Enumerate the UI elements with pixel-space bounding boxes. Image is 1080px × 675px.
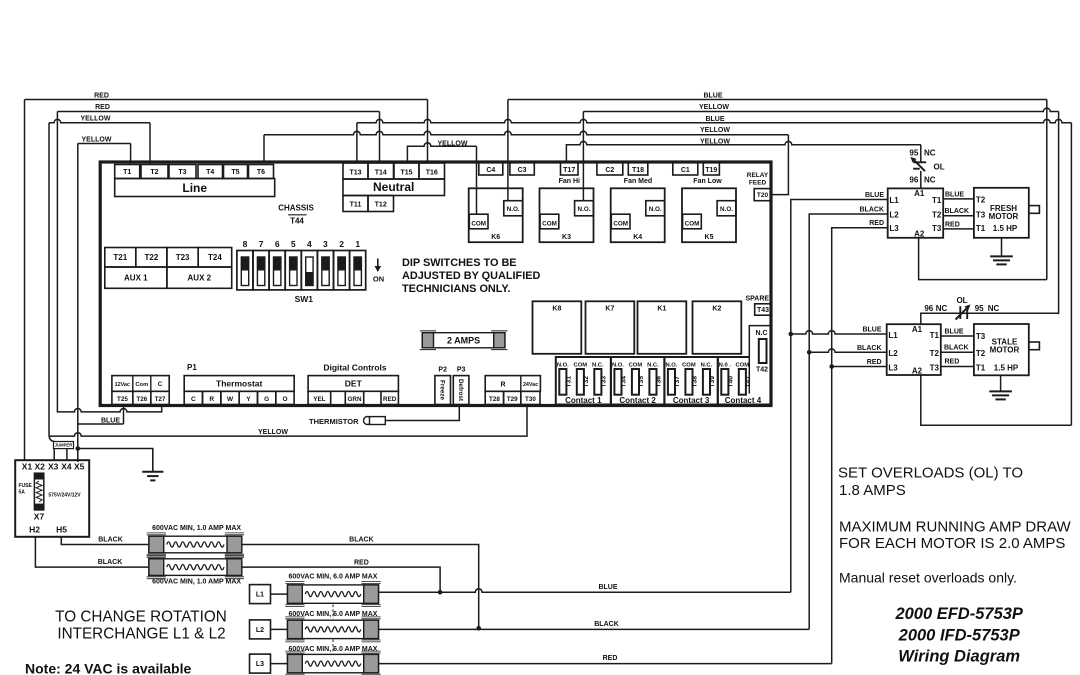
svg-text:YELLOW: YELLOW xyxy=(699,104,729,111)
thermistor symbol xyxy=(364,417,386,425)
svg-text:Manual reset overloads only.: Manual reset overloads only. xyxy=(839,570,1017,586)
svg-text:K3: K3 xyxy=(562,234,571,241)
svg-text:P1: P1 xyxy=(187,363,197,372)
terminal T11 xyxy=(343,196,368,212)
svg-text:YELLOW: YELLOW xyxy=(700,127,730,134)
svg-text:ADJUSTED BY QUALIFIED: ADJUSTED BY QUALIFIED xyxy=(402,270,541,282)
svg-text:L1: L1 xyxy=(256,592,264,599)
contactor stale motor xyxy=(887,324,941,375)
svg-text:FEED: FEED xyxy=(749,180,767,187)
wire YELLOW (T17 to fresh OL 95) horizontal xyxy=(566,141,921,162)
svg-text:2000 IFD-5753P: 2000 IFD-5753P xyxy=(898,626,1021,644)
svg-text:T33: T33 xyxy=(601,376,608,388)
terminal T2 xyxy=(141,165,168,179)
svg-text:T3: T3 xyxy=(932,224,942,233)
terminal T22 xyxy=(136,248,167,268)
wire BLACK riser to motors xyxy=(809,214,888,629)
svg-text:L3: L3 xyxy=(889,224,899,233)
svg-text:BLUE: BLUE xyxy=(703,92,722,99)
svg-text:T2: T2 xyxy=(930,349,940,358)
wire RED (X1) left vertical xyxy=(24,100,26,461)
svg-text:1.5 HP: 1.5 HP xyxy=(993,224,1018,233)
svg-text:L2: L2 xyxy=(888,349,898,358)
wire H5 to element F3 xyxy=(61,537,149,545)
terminal T28 xyxy=(485,391,503,404)
terminal T27 xyxy=(151,391,169,404)
terminal RED xyxy=(381,391,398,404)
svg-text:T21: T21 xyxy=(113,253,127,262)
svg-text:RED: RED xyxy=(945,359,960,366)
svg-text:N.C.: N.C. xyxy=(592,363,604,369)
transformer box xyxy=(15,460,89,537)
svg-text:T12: T12 xyxy=(375,202,387,209)
wire RED drop into T16 xyxy=(427,100,429,164)
svg-text:Defrost: Defrost xyxy=(457,379,464,402)
svg-text:H5: H5 xyxy=(56,525,67,535)
svg-text:SET OVERLOADS (OL) TO: SET OVERLOADS (OL) TO xyxy=(838,465,1023,482)
svg-text:7: 7 xyxy=(259,239,264,249)
svg-text:T26: T26 xyxy=(136,396,147,403)
svg-text:N.O.: N.O. xyxy=(612,363,624,369)
svg-text:T2: T2 xyxy=(976,196,986,205)
svg-text:C4: C4 xyxy=(486,167,495,174)
svg-text:X5: X5 xyxy=(74,462,85,472)
svg-text:C: C xyxy=(191,396,196,403)
wire drop to K6 COM xyxy=(476,146,478,214)
fuse F2 coil xyxy=(36,481,42,502)
divider Com/C xyxy=(150,376,152,392)
thermostat terminal G xyxy=(258,391,276,404)
wire fresh A2 loop xyxy=(919,238,1047,280)
svg-text:T2: T2 xyxy=(932,210,942,219)
svg-text:T6: T6 xyxy=(257,169,265,176)
svg-text:T28: T28 xyxy=(489,396,500,403)
svg-text:Contact 2: Contact 2 xyxy=(619,396,656,405)
svg-text:T3: T3 xyxy=(976,210,986,219)
T42 compartment outline xyxy=(749,326,771,394)
svg-text:T15: T15 xyxy=(400,169,412,176)
wire RED L3 bus xyxy=(379,663,832,665)
svg-text:95: 95 xyxy=(909,149,918,158)
terminal T1 xyxy=(115,165,140,179)
svg-text:R: R xyxy=(500,382,505,389)
wire element F4 to L1 bus xyxy=(242,567,440,592)
thermostat terminal W xyxy=(221,391,239,404)
svg-text:DET: DET xyxy=(345,379,363,389)
terminal T17 xyxy=(561,162,579,175)
svg-text:RED: RED xyxy=(603,655,618,662)
svg-text:T4: T4 xyxy=(206,169,214,176)
svg-text:T37: T37 xyxy=(674,376,681,388)
svg-text:RED: RED xyxy=(94,93,109,100)
wire L3 box to element xyxy=(271,663,288,665)
svg-text:SW1: SW1 xyxy=(295,294,314,304)
overload OL fresh switch xyxy=(910,157,926,171)
svg-text:T35: T35 xyxy=(638,376,645,388)
svg-text:T31: T31 xyxy=(566,376,573,388)
svg-text:T16: T16 xyxy=(426,169,438,176)
svg-text:T34: T34 xyxy=(621,376,628,388)
svg-text:T13: T13 xyxy=(349,169,361,176)
svg-text:COM: COM xyxy=(574,363,588,369)
wire L1 box to element xyxy=(271,593,288,595)
junction X5 ground tap xyxy=(76,446,81,451)
wire YELLOW (T6 to T20 relay feed) horizontal xyxy=(264,131,788,134)
wire YELLOW (T15 to K6 COM) xyxy=(407,143,476,163)
svg-text:JUMPER: JUMPER xyxy=(55,443,72,448)
wire RED stale branch xyxy=(832,366,887,368)
svg-text:THERMISTOR: THERMISTOR xyxy=(309,417,359,426)
wire RED (X1 to T16) horizontal xyxy=(25,99,428,101)
svg-text:INTERCHANGE L1 & L2: INTERCHANGE L1 & L2 xyxy=(57,626,225,643)
wire BLUE (K6 N.O. to fresh motor A2) horizontal xyxy=(508,99,1047,101)
svg-text:RED: RED xyxy=(867,359,882,366)
svg-text:Thermostat: Thermostat xyxy=(216,379,262,389)
svg-text:Line: Line xyxy=(182,181,207,195)
wire RED drop into T14 xyxy=(379,112,381,164)
wire YELLOW drop into T1 xyxy=(130,144,132,165)
svg-text:T42: T42 xyxy=(756,367,768,374)
wire YELLOW drop to T20 xyxy=(771,135,789,195)
svg-text:Y: Y xyxy=(246,396,251,403)
junction RED stale xyxy=(829,364,834,369)
svg-text:T20: T20 xyxy=(757,192,769,199)
wire YEL-A jog to X3 xyxy=(49,434,54,442)
svg-text:T43: T43 xyxy=(757,307,769,314)
svg-text:T29: T29 xyxy=(507,396,518,403)
svg-text:W: W xyxy=(227,396,234,403)
svg-text:T40: T40 xyxy=(728,376,735,388)
svg-text:600VAC MIN, 1.0 AMP MAX: 600VAC MIN, 1.0 AMP MAX xyxy=(152,525,241,532)
terminal group Contact 2 xyxy=(611,357,665,405)
svg-text:L2: L2 xyxy=(889,210,899,219)
thermostat terminal C xyxy=(184,391,202,404)
svg-text:N.O.: N.O. xyxy=(578,206,591,213)
svg-text:BLUE: BLUE xyxy=(865,192,884,199)
svg-text:C: C xyxy=(158,381,163,388)
svg-text:24Vac: 24Vac xyxy=(523,382,538,388)
wire YELLOW T1/X5 vertical xyxy=(77,144,79,463)
svg-text:P3: P3 xyxy=(457,367,466,374)
svg-text:OL: OL xyxy=(934,163,945,172)
wire ground branch xyxy=(78,449,153,472)
wire BLUE (T13 to stale motor A2) horizontal xyxy=(357,119,1072,122)
svg-text:FOR EACH MOTOR IS 2.0 AMPS: FOR EACH MOTOR IS 2.0 AMPS xyxy=(839,535,1065,552)
svg-text:A2: A2 xyxy=(914,230,925,239)
svg-text:BLUE: BLUE xyxy=(945,191,964,198)
motor STALE xyxy=(974,324,1029,375)
terminal T24 xyxy=(198,248,232,268)
wire YELLOW drop into T2 xyxy=(149,123,151,165)
svg-text:Contact 4: Contact 4 xyxy=(725,396,762,405)
wire H2 to element F4 xyxy=(35,537,148,567)
svg-text:BLACK: BLACK xyxy=(945,208,970,215)
svg-text:T27: T27 xyxy=(155,396,166,403)
svg-text:Freeze: Freeze xyxy=(438,380,445,400)
svg-text:575V/24V/12V: 575V/24V/12V xyxy=(48,493,81,499)
wire fresh OL upper xyxy=(920,145,922,162)
Thermostat box xyxy=(184,376,294,392)
svg-text:ON: ON xyxy=(373,275,384,284)
wire jumper leg X3 xyxy=(53,449,55,461)
svg-text:Contact 1: Contact 1 xyxy=(565,396,602,405)
svg-text:K7: K7 xyxy=(605,305,614,312)
svg-text:T38: T38 xyxy=(692,376,699,388)
svg-text:X7: X7 xyxy=(34,512,45,522)
terminal T25 xyxy=(112,391,133,404)
terminal L3 box xyxy=(250,654,271,673)
svg-text:C2: C2 xyxy=(605,167,614,174)
svg-text:COM: COM xyxy=(629,363,643,369)
svg-text:T17: T17 xyxy=(563,167,575,174)
terminal group Contact 4 xyxy=(718,357,771,405)
fuse F4 600VAC 1.0A xyxy=(147,556,244,579)
wire YELLOW (K3 N.O. to stale OL 95) horizontal xyxy=(583,108,1058,111)
terminal T42 pad xyxy=(759,339,767,363)
svg-text:BLACK: BLACK xyxy=(860,206,885,213)
fuse F5 600VAC 6.0A xyxy=(285,582,380,607)
overload OL stale switch xyxy=(956,304,971,319)
svg-text:Fan Low: Fan Low xyxy=(693,178,722,185)
svg-text:T3: T3 xyxy=(178,169,186,176)
svg-text:P2: P2 xyxy=(438,367,447,374)
terminal group Contact 1 xyxy=(556,357,611,405)
svg-text:8: 8 xyxy=(243,239,248,249)
terminal group Contact 3 xyxy=(664,357,717,405)
svg-text:NC: NC xyxy=(924,176,936,185)
terminal YEL xyxy=(308,391,331,404)
svg-text:YEL: YEL xyxy=(313,396,325,403)
svg-text:A2: A2 xyxy=(912,367,923,376)
terminal Defrost P3 xyxy=(453,376,469,405)
Neutral group box xyxy=(343,179,445,196)
terminal T13 xyxy=(343,163,368,179)
svg-text:T3: T3 xyxy=(930,364,940,373)
svg-text:T1: T1 xyxy=(932,196,942,205)
svg-text:BLUE: BLUE xyxy=(945,329,964,336)
wire stale T1-T3 xyxy=(941,335,974,337)
svg-text:BLACK: BLACK xyxy=(98,537,123,544)
R/24Vac block xyxy=(485,376,540,392)
svg-text:N.C.: N.C. xyxy=(701,363,713,369)
wire stale A1 riser xyxy=(921,313,1059,324)
svg-text:3: 3 xyxy=(323,239,328,249)
svg-text:T1: T1 xyxy=(123,169,131,176)
svg-text:Note: 24 VAC is available: Note: 24 VAC is available xyxy=(25,661,191,675)
svg-text:BLUE: BLUE xyxy=(101,417,120,424)
terminal L2 box xyxy=(250,620,271,639)
svg-text:Com: Com xyxy=(135,382,148,388)
fuse F7 600VAC 6.0A xyxy=(285,651,380,675)
terminal T3 xyxy=(169,165,196,179)
wire YELLOW T2 to T30 (line C) xyxy=(49,406,527,437)
relay K3 xyxy=(540,188,594,242)
junction BLACK stale xyxy=(807,350,812,355)
wire YELLOW (T2-T30) left vertical xyxy=(48,123,50,434)
AUX 2 box xyxy=(167,267,232,288)
svg-text:2: 2 xyxy=(339,239,344,249)
terminal T16 xyxy=(419,163,445,179)
terminal T26 xyxy=(133,391,151,404)
wire YELLOW (T2 to T30) horizontal xyxy=(49,119,150,122)
wire fresh T1-T2 xyxy=(943,198,974,200)
wire stale T3-T1 xyxy=(941,366,974,368)
wire YELLOW (T1 to X5) horizontal xyxy=(78,143,131,145)
svg-text:N.O.: N.O. xyxy=(720,206,733,213)
svg-text:O: O xyxy=(282,396,287,403)
ground symbol (transformer) xyxy=(142,449,163,481)
ground stale motor xyxy=(989,375,1012,399)
svg-text:T36: T36 xyxy=(656,376,663,388)
svg-text:Wiring Diagram: Wiring Diagram xyxy=(898,648,1020,666)
breaker link L1-L2 xyxy=(332,605,334,620)
svg-text:2 AMPS: 2 AMPS xyxy=(447,336,480,346)
wire T25 drop xyxy=(123,406,125,425)
terminal T43 xyxy=(755,304,772,315)
svg-text:K8: K8 xyxy=(552,305,561,312)
wire BLUE stale branch xyxy=(791,331,887,334)
svg-text:T3: T3 xyxy=(976,332,986,341)
svg-text:DIP SWITCHES TO BE: DIP SWITCHES TO BE xyxy=(402,257,517,269)
wire L2 box to element xyxy=(271,628,288,630)
svg-text:RED: RED xyxy=(95,104,110,111)
svg-text:BLACK: BLACK xyxy=(349,537,374,544)
fuse F2 body xyxy=(34,473,43,510)
svg-text:Contact 3: Contact 3 xyxy=(673,396,710,405)
junction F4/L1 bus xyxy=(438,590,443,595)
main control board outline xyxy=(100,162,771,406)
svg-text:K4: K4 xyxy=(633,234,642,241)
svg-text:TECHNICIANS ONLY.: TECHNICIANS ONLY. xyxy=(402,283,511,295)
svg-text:600VAC MIN, 6.0 AMP MAX: 600VAC MIN, 6.0 AMP MAX xyxy=(289,573,378,580)
svg-text:T2: T2 xyxy=(976,349,986,358)
svg-text:RED: RED xyxy=(383,396,397,403)
junction F3/L2 bus xyxy=(476,626,481,631)
svg-text:COM: COM xyxy=(542,220,557,227)
thermostat terminal O xyxy=(276,391,294,404)
svg-text:T14: T14 xyxy=(375,169,387,176)
svg-text:5A: 5A xyxy=(19,490,26,496)
wire jumper leg X4 xyxy=(66,449,68,461)
wire YELLOW right vertical to stale OL xyxy=(1058,112,1060,315)
wire element F3 to L2 bus xyxy=(242,545,479,629)
wire fresh OL lower xyxy=(920,171,922,189)
svg-text:L3: L3 xyxy=(888,364,898,373)
svg-text:COM: COM xyxy=(685,220,700,227)
svg-text:N.C.: N.C. xyxy=(647,363,659,369)
wire BLUE drop into T13 xyxy=(356,123,358,163)
svg-text:BLACK: BLACK xyxy=(594,621,619,628)
svg-text:T5: T5 xyxy=(231,169,239,176)
motor fresh shaft stub xyxy=(1029,206,1040,214)
breaker link L2-L3 xyxy=(332,640,334,654)
AUX 1 box xyxy=(105,267,167,288)
svg-text:H2: H2 xyxy=(29,525,40,535)
svg-text:K1: K1 xyxy=(657,305,666,312)
svg-text:SPARE: SPARE xyxy=(745,296,769,303)
divider 12Vac/Com xyxy=(132,376,134,392)
svg-text:T11: T11 xyxy=(350,202,362,209)
svg-text:Fan Hi: Fan Hi xyxy=(559,178,580,185)
terminal C4 xyxy=(479,162,503,175)
wire BLUE right vertical to stale A2 loop xyxy=(1070,123,1072,425)
svg-text:MAXIMUM RUNNING AMP DRAW: MAXIMUM RUNNING AMP DRAW xyxy=(839,519,1072,536)
svg-text:K6: K6 xyxy=(491,234,500,241)
svg-text:RELAY: RELAY xyxy=(747,172,769,179)
svg-text:COM: COM xyxy=(613,220,628,227)
svg-text:T2: T2 xyxy=(150,169,158,176)
svg-text:BLACK: BLACK xyxy=(98,559,123,566)
svg-text:COM: COM xyxy=(736,363,750,369)
svg-text:Fan Med: Fan Med xyxy=(624,178,652,185)
svg-text:2000 EFD-5753P: 2000 EFD-5753P xyxy=(894,605,1023,623)
relay K6 xyxy=(469,188,523,242)
svg-text:T18: T18 xyxy=(632,167,644,174)
terminal C1 xyxy=(673,162,698,175)
terminal T5 xyxy=(224,165,248,179)
svg-text:T41: T41 xyxy=(745,376,752,388)
svg-text:NC: NC xyxy=(936,304,948,313)
svg-text:T23: T23 xyxy=(176,253,190,262)
svg-text:TO CHANGE ROTATION: TO CHANGE ROTATION xyxy=(55,609,227,626)
ground fresh motor xyxy=(990,238,1013,265)
relay K8 xyxy=(533,301,582,354)
terminal C2 xyxy=(597,162,623,175)
wire BLUE riser to motors xyxy=(791,200,888,593)
svg-text:C3: C3 xyxy=(518,167,527,174)
svg-text:OL: OL xyxy=(956,296,967,305)
svg-text:1.8 AMPS: 1.8 AMPS xyxy=(839,482,906,499)
Line group box xyxy=(115,179,275,197)
fuse F6 600VAC 6.0A xyxy=(285,617,380,642)
terminal GRN xyxy=(345,391,363,404)
svg-text:GRN: GRN xyxy=(348,396,362,403)
wire BLUE right vertical to fresh A2 loop xyxy=(1046,100,1048,280)
DIP switch SW1 xyxy=(237,239,366,290)
wire YELLOW riser from T6 xyxy=(263,135,265,163)
terminal C3 xyxy=(510,162,534,175)
svg-text:96: 96 xyxy=(924,304,933,313)
terminal T21 xyxy=(105,248,136,268)
svg-text:RED: RED xyxy=(354,559,369,566)
svg-text:FUSE: FUSE xyxy=(19,483,33,489)
svg-text:MOTOR: MOTOR xyxy=(989,212,1019,221)
wire RED riser to motors xyxy=(832,228,888,664)
divider R/24Vac xyxy=(520,376,522,392)
terminal T4 xyxy=(198,165,223,179)
svg-text:L2: L2 xyxy=(256,627,264,634)
svg-text:1.5 HP: 1.5 HP xyxy=(994,364,1019,373)
svg-text:T1: T1 xyxy=(976,224,986,233)
terminal Freeze P2 xyxy=(435,376,451,405)
relay K2 xyxy=(693,301,742,354)
junction BLUE stale xyxy=(789,332,794,337)
wire stale T2-T2 xyxy=(941,351,974,353)
svg-text:N.O.: N.O. xyxy=(507,206,520,213)
terminal T6 xyxy=(249,165,274,179)
relay K4 xyxy=(611,188,665,242)
svg-text:C1: C1 xyxy=(681,167,690,174)
svg-text:R: R xyxy=(209,396,214,403)
svg-text:12Vac: 12Vac xyxy=(115,382,130,388)
svg-text:G: G xyxy=(264,396,269,403)
wire stale A2 loop xyxy=(921,375,1072,425)
svg-text:4: 4 xyxy=(307,239,312,249)
svg-text:X4: X4 xyxy=(61,462,72,472)
svg-text:CHASSIS: CHASSIS xyxy=(278,204,314,213)
svg-text:T30: T30 xyxy=(525,396,536,403)
wire fresh T2-T3 xyxy=(943,215,974,217)
